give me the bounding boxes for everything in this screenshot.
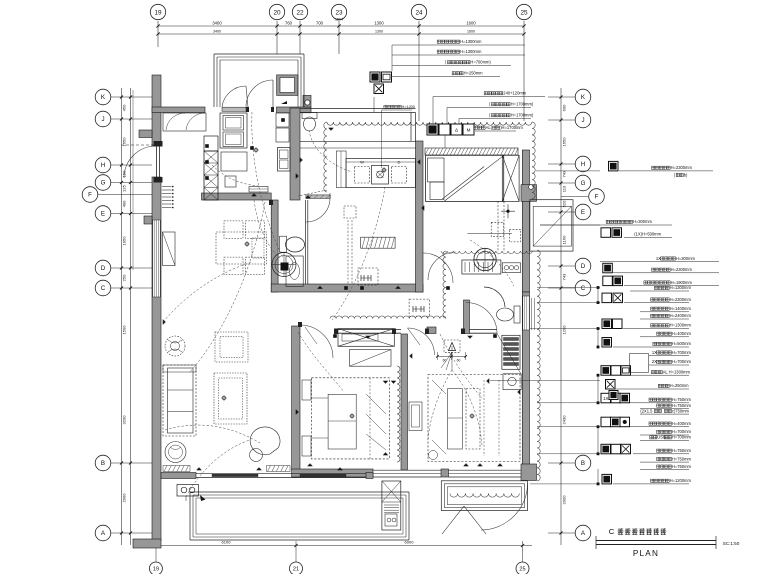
wall right main (522, 150, 529, 292)
svg-text:H: H (581, 161, 585, 168)
svg-text:H=700mm: H=700mm (672, 350, 692, 355)
svg-text:450: 450 (122, 104, 127, 111)
svg-text:F: F (595, 194, 599, 201)
wall laundry right vertical (416, 141, 424, 292)
legend row 防水插座H=1300mm (630, 290, 689, 292)
legend row 床头壁灯H=700mm (640, 434, 689, 436)
wall top entry right (277, 107, 312, 113)
wire foyer to living long (190, 202, 265, 372)
wire bath (470, 240, 514, 286)
legend leader lines into plan (537, 287, 600, 289)
svg-text:c)750mm: c)750mm (672, 408, 690, 413)
wall master top thin (470, 329, 498, 331)
callout symbols group2 (427, 124, 438, 135)
tv cabinet (163, 232, 176, 266)
svg-text:25: 25 (519, 567, 525, 573)
legend row 排气扇预留H=2300mm (602, 293, 612, 303)
shower screen arc (484, 287, 505, 307)
svg-text:H=1900mm: H=1900mm (671, 280, 693, 285)
svg-text:2900: 2900 (122, 493, 127, 503)
legend row 下送风预留H=2400mm (640, 318, 689, 320)
svg-text:21: 21 (293, 567, 299, 573)
wall top-left laundry (152, 107, 205, 113)
laundry sill hatch (306, 195, 330, 199)
bath door arcs (423, 253, 453, 283)
powder vanity (286, 256, 303, 286)
corridor shelf hatch bar (361, 237, 395, 248)
cloud laundry tail (298, 190, 327, 196)
legend row (2X1.5平方 回路c)750mm (640, 413, 689, 415)
callout lines group2 (433, 96, 545, 98)
bay window study (530, 200, 573, 251)
corridor door arc from kitchen (306, 198, 330, 222)
powder right wall lines (305, 200, 307, 284)
svg-text:M: M (467, 127, 471, 132)
svg-text:H=300mm: H=300mm (676, 256, 696, 261)
entry balcony nested rects (214, 53, 304, 55)
wall left main upper (152, 75, 161, 146)
revision cloud bath horizontal (441, 251, 533, 253)
entry hinge circle (305, 100, 310, 105)
washer dashed (355, 167, 370, 184)
svg-text:C: C (609, 527, 615, 536)
svg-text:1650: 1650 (562, 137, 567, 147)
living bottom wall window (161, 473, 196, 479)
svg-text:1X: 1X (656, 256, 661, 261)
master window slider (449, 469, 522, 471)
study wardrobe (502, 155, 519, 201)
svg-text:H=2300mm: H=2300mm (670, 297, 692, 302)
svg-text:F: F (88, 192, 92, 199)
svg-text:H=250mm: H=250mm (464, 71, 484, 76)
right balcony wavy (450, 494, 519, 498)
svg-text:19: 19 (153, 567, 159, 573)
bedroom2 wardrobe (338, 329, 394, 347)
left door lintel dash (121, 144, 156, 146)
svg-text:H=700mm: H=700mm (672, 429, 692, 434)
laundry left window strip (336, 151, 346, 188)
laundry room upper cabinet lines (300, 141, 416, 143)
svg-text:3400: 3400 (213, 29, 221, 33)
svg-text:110: 110 (562, 185, 567, 192)
svg-text:2430: 2430 (562, 415, 567, 425)
legend row 镜前灯预留灯线H=1900mm (603, 276, 613, 286)
svg-text:3200: 3200 (122, 415, 127, 425)
svg-text:125: 125 (122, 184, 127, 191)
legend row 台盆下插座H=500mm (602, 338, 612, 348)
dryer dashed (392, 167, 407, 184)
svg-text:600: 600 (562, 104, 567, 111)
svg-text:250: 250 (122, 274, 127, 281)
wire kitchen (212, 165, 258, 186)
svg-text:H=500mm: H=500mm (672, 341, 692, 346)
svg-text:1600: 1600 (466, 21, 476, 26)
left grid bubble F (90, 194, 152, 196)
corridor label box dashed (358, 268, 378, 285)
svg-text:H=1300mm: H=1300mm (670, 323, 692, 328)
svg-text:H=2300mm: H=2300mm (671, 267, 693, 272)
svg-text:G: G (101, 180, 106, 187)
laundry counter (346, 159, 416, 188)
svg-text:Δ: Δ (455, 127, 458, 132)
left door jambs (154, 141, 163, 147)
AC platform (382, 481, 401, 530)
wire foyer to powder (252, 112, 283, 258)
legend row 地插预留H=750mm (640, 461, 689, 463)
entry lintel stub (139, 130, 152, 138)
svg-text:(1X)H=500mm: (1X)H=500mm (634, 232, 661, 237)
laundry callout leader (381, 110, 383, 168)
wall bottom pier mid (441, 469, 449, 477)
svg-text:22: 22 (296, 9, 304, 16)
svg-text:H=750mm: H=750mm (672, 456, 692, 461)
dining table dashed (216, 232, 267, 264)
label box dashed 2 (409, 299, 429, 316)
revision cloud laundry (324, 122, 327, 192)
sofa (163, 365, 196, 436)
svg-text:H=1300mm: H=1300mm (460, 49, 482, 54)
legend row 预留壁灯线H=1200mm (602, 474, 612, 484)
svg-text:D: D (101, 265, 106, 272)
legend row 电动窗帘插座H=400mm (601, 417, 611, 427)
svg-text:J: J (101, 116, 104, 123)
wall kitchen divider vertical (290, 108, 300, 200)
legend row 洗衣机插座H=1300mm (602, 319, 612, 329)
legend row 外阳台壁灯H=2300mm (609, 161, 619, 171)
right grid axis (560, 88, 562, 545)
callout lines top (392, 44, 525, 46)
svg-text:H=300mm: H=300mm (633, 219, 653, 224)
svg-text:1300: 1300 (374, 21, 384, 26)
armchair (250, 427, 280, 455)
window right wall strip (523, 296, 529, 330)
svg-text:H=1700mm): H=1700mm) (511, 102, 534, 107)
svg-text:1160: 1160 (562, 235, 567, 244)
legend row 空调插座H=750mm (601, 444, 611, 454)
legend row (1X)H=500mm (601, 228, 611, 238)
shoe cabinet (277, 75, 298, 96)
legend small box below (609, 391, 618, 400)
svg-text:b): b) (684, 172, 688, 177)
wall kitchen bottom (202, 193, 272, 200)
svg-text:3400: 3400 (212, 21, 222, 26)
master lamp circle (429, 451, 438, 460)
svg-text:H=400mm: H=400mm (672, 421, 692, 426)
ceiling light cross (507, 204, 509, 218)
kitchen lower counter (221, 152, 247, 171)
wall corridor pier a (464, 300, 470, 334)
kitchen tall cabinet ladder (204, 136, 218, 151)
laundry machines under counter (163, 113, 206, 131)
switch dots (281, 118, 285, 122)
legend row 床头插座H=750mm (640, 408, 689, 410)
corridor duct dashed (344, 206, 356, 218)
triple basin circles (502, 263, 520, 273)
kitchen small appliance (276, 113, 289, 127)
kitchen stove (278, 148, 291, 172)
svg-text:E: E (581, 209, 585, 216)
svg-text:400: 400 (122, 200, 127, 207)
svg-text:C: C (581, 285, 586, 292)
wire laundry corridor (332, 187, 385, 320)
marker leader fan (441, 352, 452, 368)
left door leaf (156, 146, 158, 177)
panel arrow (200, 495, 206, 501)
powder toilet (280, 236, 287, 252)
door jamb marks (298, 322, 302, 327)
threshold zigzag left (163, 466, 190, 472)
laundry faucet box (372, 166, 389, 185)
svg-text:743: 743 (562, 273, 567, 280)
wall bottom bedroom2 (292, 469, 373, 477)
svg-text:G: G (581, 180, 586, 187)
bedroom2 door arc (300, 325, 333, 358)
elevation marker dims (437, 355, 465, 357)
legend row 1X预留灯线H=300mm (600, 261, 719, 263)
svg-text:23: 23 (335, 9, 343, 16)
round tub (474, 248, 496, 270)
wall corridor pier b (427, 327, 436, 334)
svg-text:19: 19 (154, 9, 162, 16)
master bath vanity grill (462, 260, 501, 274)
legend row 夜灯插座H=750mm (640, 469, 689, 471)
stool dotted square (215, 332, 248, 362)
legend trunk junctions (597, 286, 600, 289)
wall bedroom divider (401, 334, 408, 470)
svg-text:25: 25 (520, 9, 528, 16)
svg-text:E: E (101, 211, 105, 218)
master door arc (466, 303, 497, 334)
master closet striped (502, 335, 520, 369)
svg-text:J: J (581, 117, 584, 124)
svg-text:60: 60 (443, 359, 447, 363)
coffee table dotted (214, 373, 247, 424)
legend row 双控开关插座H=750mm (601, 393, 611, 403)
elevation marker A (444, 340, 460, 352)
wall bedroom2 left (292, 326, 300, 470)
entry door arcs (222, 86, 246, 107)
wall foot bottom-left (133, 539, 161, 548)
master bath counter edge (467, 233, 512, 235)
entry threshold hatch (222, 107, 246, 111)
svg-text:H=700mm: H=700mm (672, 359, 692, 364)
ceiling lights small (245, 242, 248, 245)
bedroom3 door arc (408, 328, 435, 355)
balcony swing arc (481, 483, 528, 530)
dining chairs dashed (224, 221, 243, 239)
svg-text:1500: 1500 (122, 325, 127, 335)
svg-text:B: B (581, 460, 585, 467)
svg-text:H=2400mm: H=2400mm (670, 313, 692, 318)
wall powder left vertical (271, 200, 278, 292)
legend bracket rect (630, 354, 649, 373)
wire bedroom2 (298, 332, 344, 392)
svg-text:H=750mm: H=750mm (672, 397, 692, 402)
plant circle (165, 336, 185, 356)
corridor dashed verticals (351, 220, 353, 284)
svg-text:H=750mm: H=750mm (672, 403, 692, 408)
svg-text:H=1700mm): H=1700mm) (511, 113, 534, 118)
wall bay window pier (521, 185, 537, 202)
entry black mark (281, 101, 287, 104)
svg-text:H=1300mm: H=1300mm (670, 285, 692, 290)
svg-text:H=750mm: H=750mm (672, 448, 692, 453)
right grid bubble F (561, 196, 588, 198)
callout symbols group1 (370, 72, 380, 82)
svg-text:1600: 1600 (467, 29, 475, 33)
wire living (165, 425, 260, 443)
legend row 弱电箱 H=250mm (606, 380, 616, 390)
study bed platform (426, 155, 504, 201)
svg-text:760: 760 (285, 21, 293, 26)
svg-text:)H=1700mm: )H=1700mm (500, 125, 523, 130)
bedroom2 nightstand (302, 380, 311, 400)
svg-text:H=1300mm: H=1300mm (460, 39, 482, 44)
svg-text:60: 60 (457, 359, 461, 363)
svg-text:AL H=1300mm: AL H=1300mm (663, 369, 691, 374)
svg-text:1200: 1200 (562, 325, 567, 335)
legend trunk lines (597, 287, 599, 303)
legend row 热水器插座H=1400mm (640, 311, 689, 313)
svg-text:H=1200mm: H=1200mm (670, 478, 692, 483)
svg-text:1X: 1X (652, 350, 657, 355)
svg-text:D: D (398, 160, 401, 165)
svg-text:H=1200: H=1200 (402, 105, 415, 109)
master toilet (514, 306, 520, 323)
master nightstand (409, 402, 422, 431)
master bed dashed (428, 375, 520, 462)
svg-text:1504: 1504 (335, 18, 343, 22)
round side table (165, 442, 186, 463)
svg-text:H: H (101, 162, 105, 169)
laundry top thin wall (300, 108, 416, 110)
glass partition dashed (497, 201, 499, 252)
extra sockets walls (317, 286, 322, 289)
eave line (132, 90, 134, 270)
legend row 床头USB插座H=700mm (640, 439, 689, 441)
bedroom2 dresser (350, 350, 392, 367)
socket symbols (163, 319, 166, 324)
master dresser (503, 374, 521, 390)
wall bottom right block (521, 464, 537, 481)
svg-text:AL(: AL( (486, 125, 493, 130)
window jamb pier (144, 216, 152, 224)
main balcony nested rects (190, 491, 409, 493)
wire bundle comb (162, 186, 172, 188)
left grid axis (121, 88, 123, 545)
legend row 2X预留灯线H=700mm (649, 364, 689, 366)
svg-text:1X: 1X (603, 396, 609, 401)
balcony door V (442, 506, 464, 534)
svg-text:SC:1:50: SC:1:50 (723, 541, 740, 546)
wall study top hatched (425, 148, 518, 155)
wall left main lower (152, 177, 161, 541)
svg-text:240+120mm: 240+120mm (503, 91, 526, 96)
svg-text:H=750mm: H=750mm (672, 464, 692, 469)
svg-text:700: 700 (316, 21, 324, 26)
svg-text:H=700mm: H=700mm (672, 435, 692, 440)
kitchen counter with sinks (220, 113, 247, 148)
powder shower circle (272, 253, 296, 277)
wall corridor bottom thin (338, 329, 401, 331)
svg-text:H=700mm): H=700mm) (470, 60, 491, 65)
electric panel box (177, 485, 199, 497)
legend row 强电箱AL H=1300mm (601, 366, 611, 376)
svg-text:24: 24 (415, 9, 423, 16)
title underline double (596, 540, 716, 542)
legend row 浴霸预留线H=2300mm (603, 263, 613, 273)
kitchen bottom shelf (249, 187, 268, 193)
svg-text:H=1400mm: H=1400mm (670, 306, 692, 311)
svg-text:2X: 2X (652, 359, 657, 364)
svg-text:2000: 2000 (562, 495, 567, 505)
wire master (440, 334, 482, 398)
svg-text:C: C (101, 285, 106, 292)
svg-text:PLAN: PLAN (633, 549, 659, 558)
right balcony nested rects (441, 481, 527, 511)
extra wire dashes (186, 440, 250, 497)
svg-text:B: B (101, 460, 105, 467)
legend row 马桶插座H=400mm (640, 336, 689, 338)
svg-text:H=400mm: H=400mm (672, 331, 692, 336)
bedroom2 window slider (373, 469, 441, 471)
svg-text:1300: 1300 (375, 29, 383, 33)
revision cloud bed2 (397, 366, 400, 462)
wall powder bottom (271, 284, 423, 292)
toilet small top (302, 113, 317, 119)
svg-text:H=250mm: H=250mm (670, 383, 690, 388)
svg-text:1950: 1950 (122, 236, 127, 246)
svg-text:(2X1.5: (2X1.5 (640, 408, 653, 413)
svg-text:D: D (581, 263, 586, 270)
revision cloud right side (537, 250, 540, 481)
bottom dimension line (152, 545, 532, 547)
svg-text:20: 20 (273, 9, 281, 16)
svg-text:W: W (360, 160, 364, 165)
top grid bubbles (150, 4, 165, 19)
top grid dimension lines (158, 25, 524, 27)
powder fan symbol (281, 263, 289, 271)
bedroom2 bed dashed (312, 378, 390, 459)
threshold zigzag right (267, 466, 291, 472)
revision cloud corridor (443, 251, 446, 318)
svg-text:H=2300mm: H=2300mm (671, 165, 693, 170)
left door arc (124, 146, 156, 178)
bottom grid bubbles (149, 562, 162, 574)
legend row 预留挂烫机插座H=300mm (540, 224, 672, 226)
legend row 1X预留灯线H=700mm (649, 355, 689, 357)
window left wall upper (153, 220, 160, 297)
